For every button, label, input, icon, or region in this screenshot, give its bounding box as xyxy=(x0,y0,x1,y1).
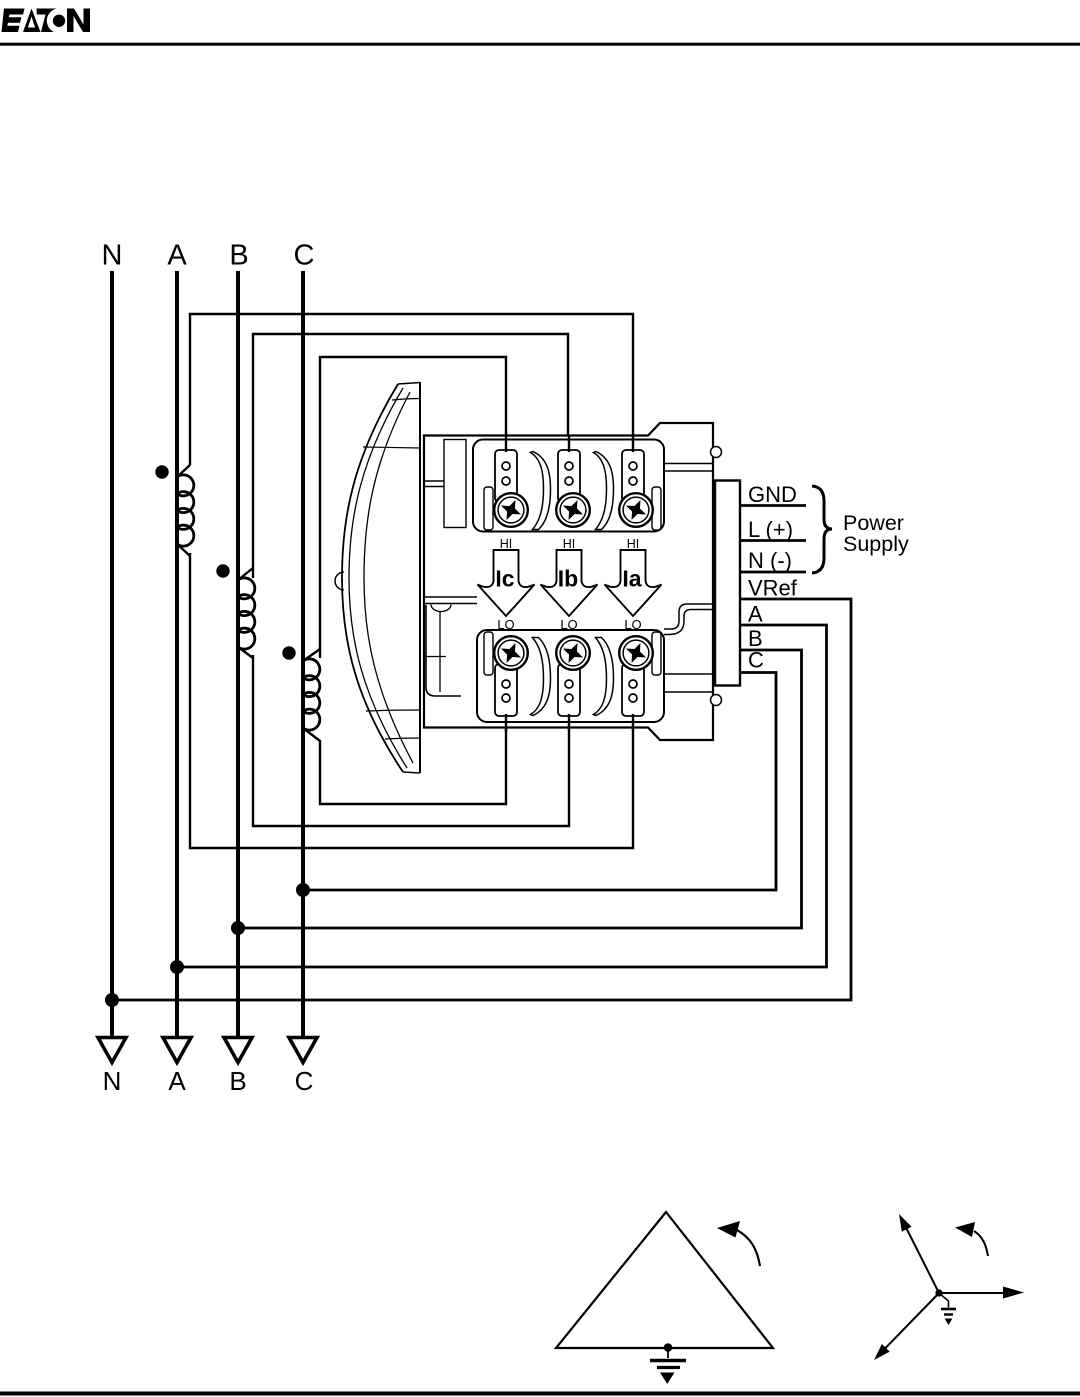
screw Ic LO xyxy=(494,636,528,670)
arrow Ib xyxy=(541,550,598,616)
right side labels xyxy=(748,482,798,673)
HI labels xyxy=(500,537,640,551)
delta rotation arrow xyxy=(736,1230,760,1267)
CT C coil xyxy=(282,646,320,741)
bottom open arrowheads xyxy=(98,1038,317,1063)
svg-text:HI: HI xyxy=(500,537,513,551)
svg-text:C: C xyxy=(294,240,315,272)
net C to C bus xyxy=(303,673,776,891)
arrowhead A xyxy=(163,1038,191,1063)
right section seams xyxy=(664,464,713,472)
current labels xyxy=(495,566,641,592)
fin bottom 2 xyxy=(594,638,614,716)
svg-text:HI: HI xyxy=(627,537,640,551)
svg-text:Ib: Ib xyxy=(558,566,578,592)
terminal tab Ib bottom xyxy=(558,664,580,716)
terminal tab Ic top xyxy=(495,450,517,502)
svg-text:C: C xyxy=(295,1066,314,1096)
terminal tab Ib top xyxy=(558,450,580,502)
junction dot N/VRef xyxy=(105,993,119,1007)
screw Ia LO xyxy=(619,636,653,670)
svg-text:L (+): L (+) xyxy=(748,517,793,542)
top phase labels xyxy=(102,240,315,272)
wire B CT to Ib HI xyxy=(253,334,568,578)
svg-text:C: C xyxy=(748,648,764,673)
svg-text:LO: LO xyxy=(624,617,641,632)
Power Supply xyxy=(843,511,909,556)
svg-text:A: A xyxy=(167,240,187,272)
fin bottom 1 xyxy=(531,638,551,716)
delta ground xyxy=(667,1348,669,1358)
screw Ia HI xyxy=(619,493,653,527)
svg-text:A: A xyxy=(748,602,763,627)
wye phasor lines xyxy=(939,1292,1006,1294)
svg-text:N: N xyxy=(102,240,123,272)
svg-text:Supply: Supply xyxy=(843,532,909,556)
svg-text:GND: GND xyxy=(748,482,797,507)
terminal tab Ia top xyxy=(622,450,644,502)
delta junction dot xyxy=(664,1343,673,1352)
wire Ic LO return to C CT xyxy=(320,710,506,804)
fin top 2 xyxy=(594,452,614,530)
svg-text:LO: LO xyxy=(497,617,514,632)
junction dot A xyxy=(170,960,184,974)
wye rotation arrow xyxy=(974,1231,988,1256)
wire stubs through recess edges xyxy=(506,436,633,731)
body seam lines left xyxy=(424,481,444,487)
wye diagram xyxy=(874,1214,1024,1360)
top rule xyxy=(0,43,1080,46)
side screw bottom xyxy=(711,695,722,706)
bottom rule xyxy=(0,1392,1080,1396)
svg-text:N: N xyxy=(103,1066,122,1096)
phase bus A xyxy=(175,271,179,1037)
bottom-left inner panel xyxy=(426,605,461,696)
recess wall strips bottom xyxy=(484,632,493,675)
phase bus N xyxy=(110,271,114,1037)
wire C CT to Ic HI xyxy=(320,357,506,658)
net VRef to N bus xyxy=(112,599,851,1000)
line GND xyxy=(740,504,806,507)
arrow Ia xyxy=(605,550,662,616)
svg-text:HI: HI xyxy=(563,537,576,551)
CT A coil xyxy=(155,465,194,556)
top-left inner panel xyxy=(444,440,466,528)
screw Ib HI xyxy=(556,493,590,527)
svg-text:B: B xyxy=(229,1066,246,1096)
delta triangle xyxy=(556,1212,773,1348)
step pipe xyxy=(664,604,712,629)
wye arrowheads xyxy=(1003,1287,1024,1299)
line N(-) xyxy=(740,571,806,574)
Eaton logo xyxy=(2,8,91,33)
wye center dot xyxy=(935,1289,942,1296)
arrowhead N xyxy=(98,1038,126,1063)
junction dot C xyxy=(296,883,310,897)
svg-text:Ic: Ic xyxy=(495,566,514,592)
svg-text:N (-): N (-) xyxy=(748,548,792,573)
side screw top xyxy=(711,447,722,458)
bottom phase labels xyxy=(103,1066,314,1096)
fin top 1 xyxy=(531,452,551,530)
arrowhead C xyxy=(289,1038,317,1063)
terminal tab Ic bottom xyxy=(495,664,517,716)
meter body xyxy=(424,423,722,740)
connector block xyxy=(715,481,740,686)
svg-text:A: A xyxy=(168,1066,186,1096)
arrowhead B xyxy=(224,1038,252,1063)
net A to A bus xyxy=(177,625,827,967)
screw Ic HI xyxy=(494,493,528,527)
LO labels xyxy=(497,617,641,632)
svg-text:VRef: VRef xyxy=(748,576,798,601)
wye ground xyxy=(939,1293,949,1308)
delta diagram xyxy=(556,1212,773,1384)
screw Ib LO xyxy=(556,636,590,670)
CT B coil xyxy=(216,564,255,658)
svg-text:B: B xyxy=(229,240,248,272)
wire A CT to Ia HI (top run) xyxy=(190,314,633,465)
meter lens xyxy=(335,382,420,773)
terminal tab Ia bottom xyxy=(622,664,644,716)
svg-text:LO: LO xyxy=(560,617,577,632)
svg-text:Ia: Ia xyxy=(622,566,641,592)
net B to B bus xyxy=(238,650,802,928)
top terminal recess xyxy=(473,440,664,532)
junction dot B xyxy=(231,921,245,935)
wire Ia LO return to A CT xyxy=(190,553,633,848)
bottom terminal recess xyxy=(477,630,664,722)
phase bus B xyxy=(236,271,240,1037)
brace xyxy=(812,486,832,573)
wire Ib LO return to B CT xyxy=(253,655,569,826)
recess wall strips top xyxy=(484,487,493,530)
line L(+) xyxy=(740,539,806,542)
arrow Ic xyxy=(478,550,535,616)
phase bus C xyxy=(301,271,305,1037)
